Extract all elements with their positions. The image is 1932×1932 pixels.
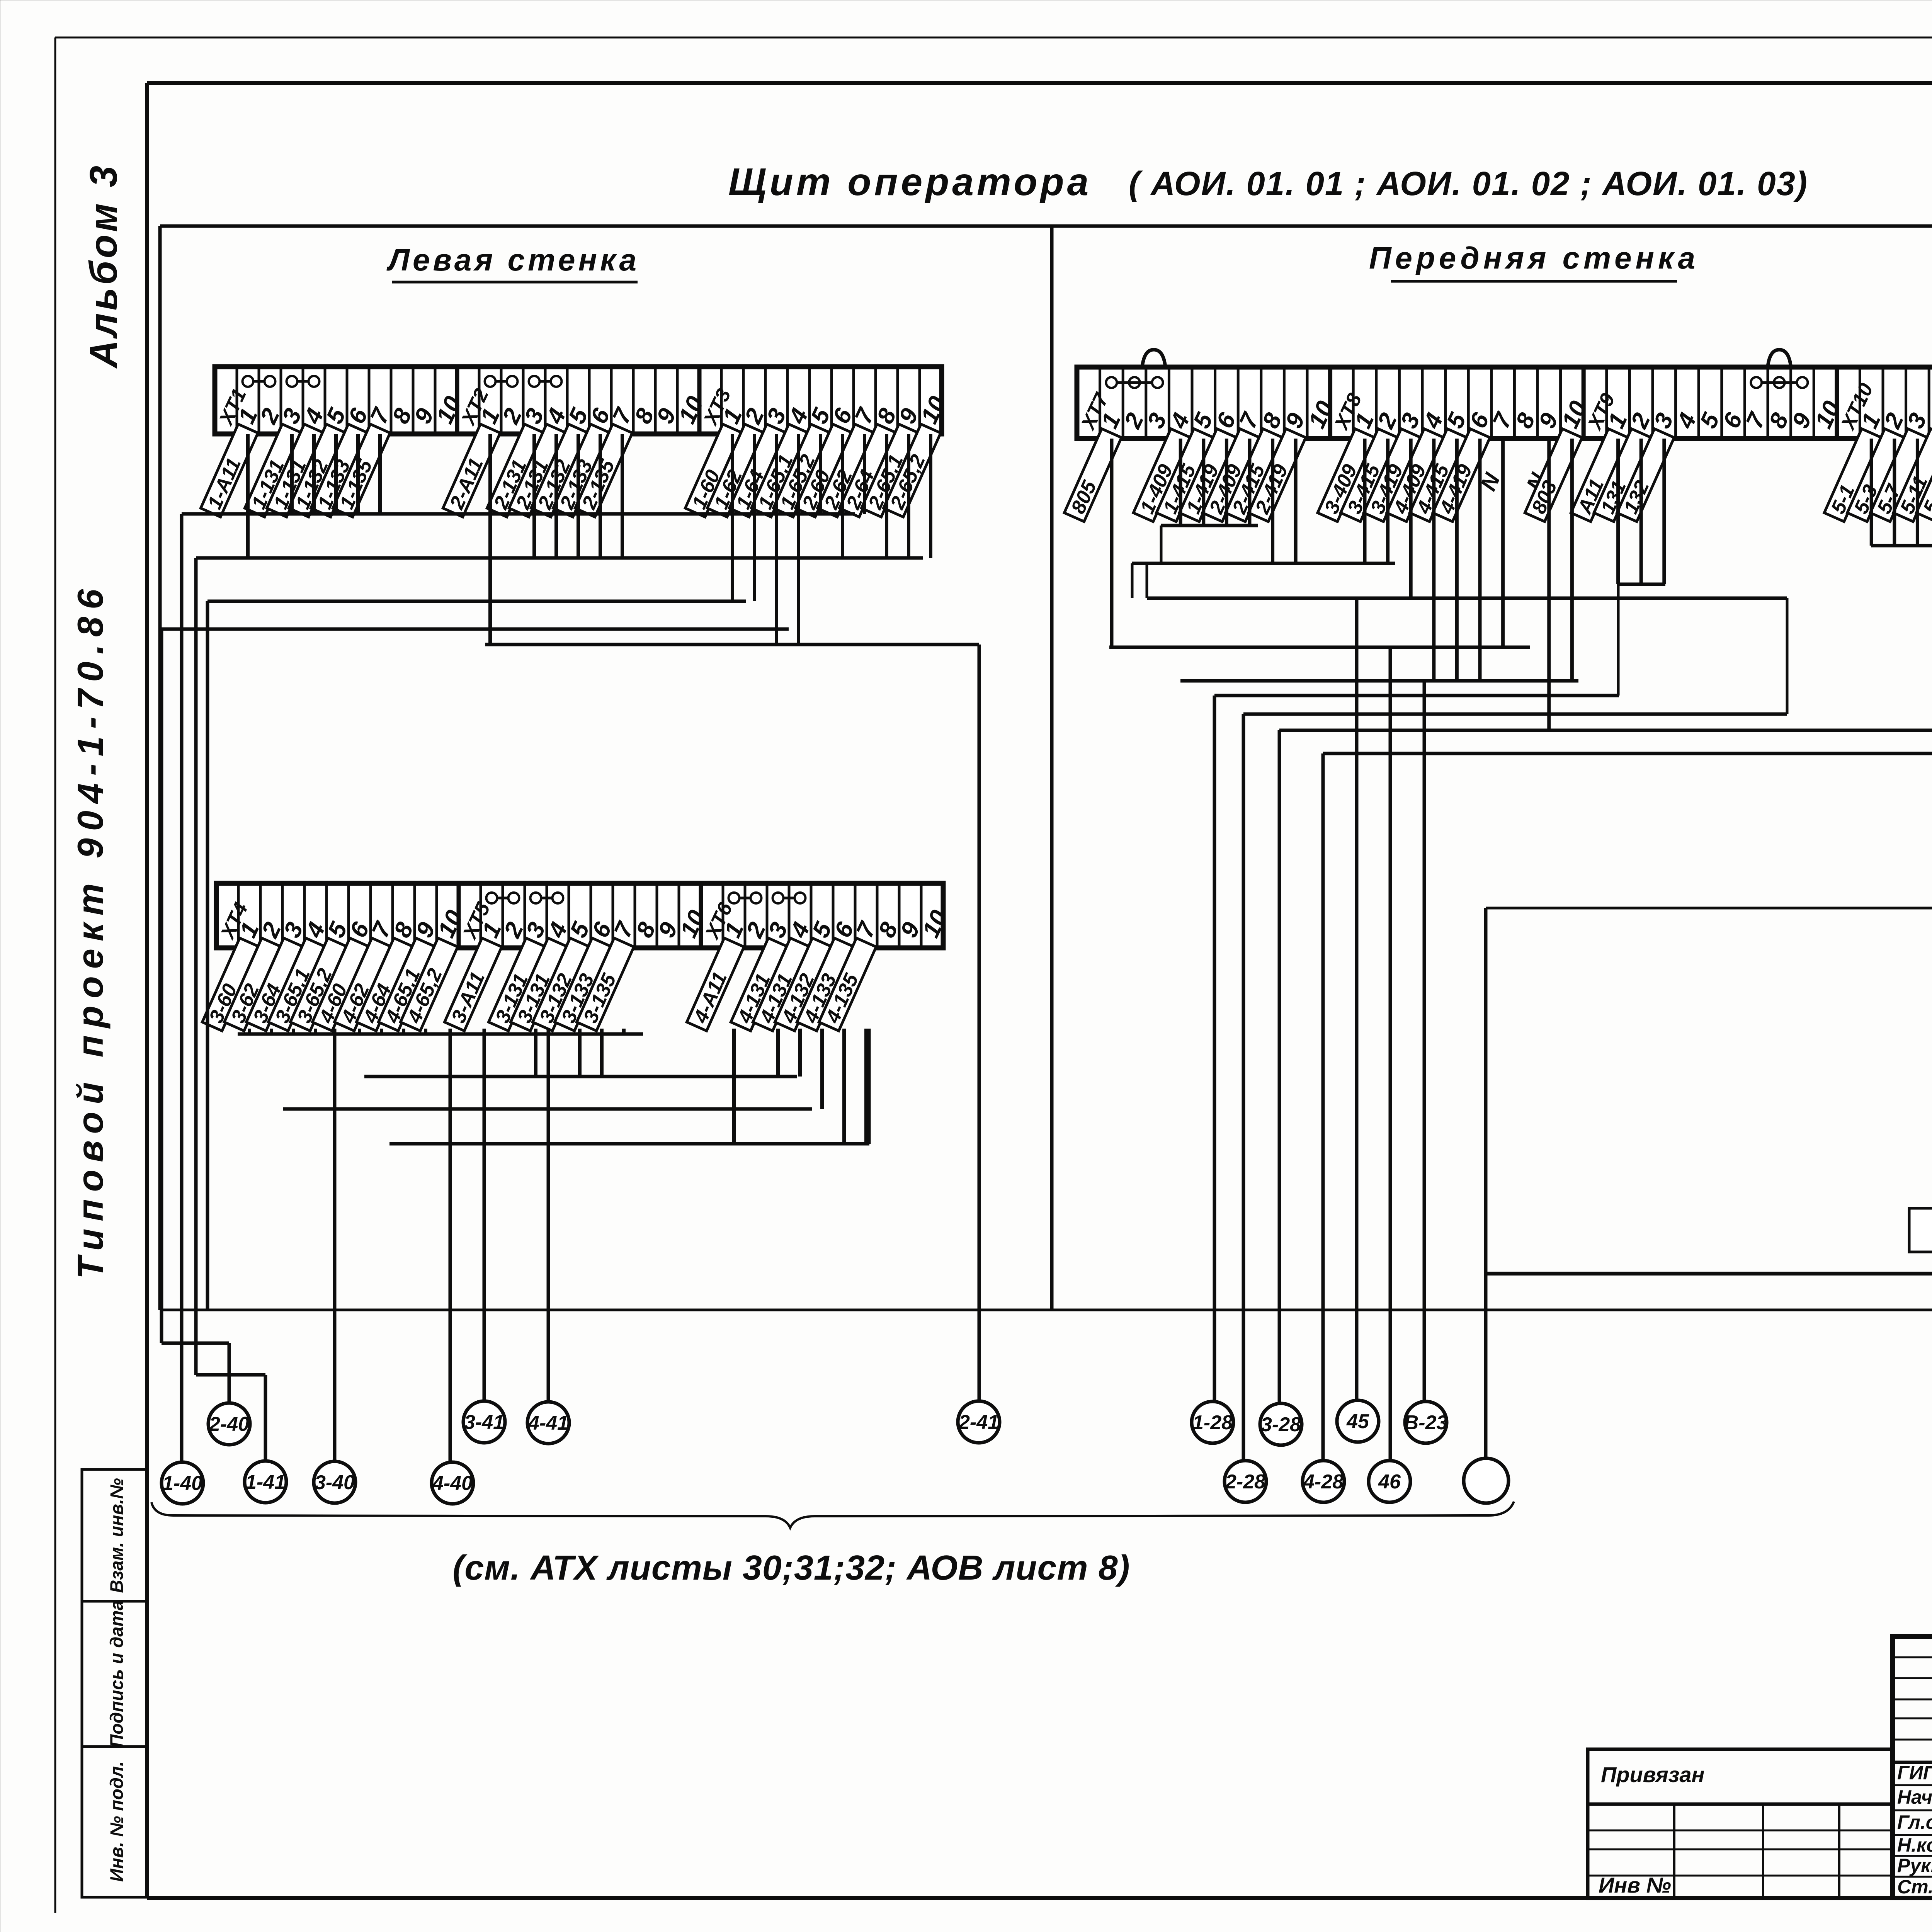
svg-text:Нач.отд.: Нач.отд. xyxy=(1897,1786,1932,1808)
svg-text:4-28: 4-28 xyxy=(1303,1471,1344,1493)
wire trunk to 45 xyxy=(1355,598,1359,1401)
jumper link xyxy=(287,376,320,387)
wire label 1-415 xyxy=(1156,429,1215,522)
svg-text:1-28: 1-28 xyxy=(1192,1412,1233,1434)
wire label 3-60 xyxy=(202,938,260,1031)
wire label 5-13 xyxy=(1917,429,1932,522)
wire label 1-131 xyxy=(245,424,303,517)
cable circle 2-41 xyxy=(958,1401,1000,1443)
svg-text:Инв. № подл.: Инв. № подл. xyxy=(106,1761,127,1882)
cable circle unlabeled xyxy=(1464,1458,1509,1503)
content box top xyxy=(160,224,1932,228)
wire bus M6 xyxy=(1214,694,1619,697)
paper left edge xyxy=(54,37,56,1913)
wire label N xyxy=(1522,469,1551,495)
wire label 1-64 xyxy=(729,424,787,517)
wire label 1-62 xyxy=(707,424,765,517)
divider left/front xyxy=(1050,226,1054,1310)
wire label 2-62 xyxy=(817,424,876,517)
wire label 5-3 xyxy=(1847,429,1906,522)
wire label 2-419 xyxy=(1248,429,1307,522)
wire link M3-M7 xyxy=(1786,598,1789,714)
wire label 2-132 xyxy=(531,424,589,517)
wire trunk to 3-40 xyxy=(333,1029,337,1462)
wire label 1-132 xyxy=(289,424,347,517)
wire trunk to 3-28 xyxy=(1278,730,1281,1404)
svg-text:2-41: 2-41 xyxy=(958,1411,999,1434)
svg-text:ГИП: ГИП xyxy=(1897,1762,1932,1784)
wire label 1-133 xyxy=(311,424,369,517)
wire label N xyxy=(1476,469,1505,495)
wire bus M3 xyxy=(1147,597,1787,600)
ground bar box xyxy=(1909,1208,1932,1252)
wire link A11-M6 xyxy=(1617,584,1620,696)
wire label А11 xyxy=(1571,429,1629,522)
wire label 132 xyxy=(1617,429,1675,522)
wire label 3-415 xyxy=(1341,429,1399,522)
content box bottom xyxy=(160,1309,1932,1311)
loop above XT7 xyxy=(1142,350,1165,367)
svg-text:Подпись и дата: Подпись и дата xyxy=(106,1600,127,1748)
wire ground bus thick xyxy=(1486,1272,1932,1276)
wire trunk 537 xyxy=(206,601,209,1310)
wire bus M4 xyxy=(1109,646,1530,649)
wire label 1-А11 xyxy=(201,424,259,517)
wire bus M1 xyxy=(1161,524,1258,527)
wire label 2-65,2 xyxy=(883,424,942,517)
wire label 3-409 xyxy=(1318,429,1376,522)
wire label 3-132 xyxy=(532,938,591,1031)
wire label 2-131 xyxy=(487,424,545,517)
wire label 3-65,1 xyxy=(268,938,327,1031)
cable circle 2-28 xyxy=(1225,1461,1266,1502)
jumper link xyxy=(729,893,762,903)
wire link M3 left xyxy=(1146,563,1148,598)
wire trunk to 3-41 xyxy=(483,1029,486,1402)
wire label 2-64 xyxy=(839,424,898,517)
wire trunk to B-23 xyxy=(1423,681,1426,1402)
jumper link xyxy=(773,893,806,903)
svg-text:В-23: В-23 xyxy=(1404,1412,1448,1434)
svg-text:1-40: 1-40 xyxy=(162,1472,202,1495)
terminal strip XT4-XT6 xyxy=(216,883,953,948)
wire bus b2 xyxy=(196,556,923,560)
wire label 4-62 xyxy=(334,938,393,1031)
wire label 1-65,2 xyxy=(773,424,832,517)
wire trunk to 4-28 xyxy=(1321,753,1325,1461)
terminal strip XT7-XT10 xyxy=(1077,367,1932,439)
wire label 4-65,1 xyxy=(378,938,437,1031)
svg-text:Ст.инж: Ст.инж xyxy=(1897,1876,1932,1898)
wire bus N link xyxy=(1486,907,1932,910)
wire bus m4 xyxy=(389,1142,869,1146)
cable circle 3-41 xyxy=(463,1401,505,1443)
wire bus 5L11 xyxy=(1871,544,1932,548)
wire label 1-60 xyxy=(685,424,743,517)
svg-text:Гл.спец.: Гл.спец. xyxy=(1897,1811,1932,1833)
cable circle 4-28 xyxy=(1303,1461,1344,1502)
svg-text:45: 45 xyxy=(1346,1410,1369,1433)
wire label 4-409 xyxy=(1387,429,1445,522)
wire label 131 xyxy=(1594,429,1652,522)
wire label 4-65,2 xyxy=(400,938,459,1031)
paper top edge xyxy=(55,37,1932,39)
brace under circles xyxy=(151,1502,1514,1528)
wire label 2-415 xyxy=(1226,429,1284,522)
svg-text:4-40: 4-40 xyxy=(432,1472,473,1495)
terminal strip XT1-XT3 xyxy=(214,367,951,434)
wire trunk to 1-40 xyxy=(180,514,184,1463)
wire stubs below strip XT1-XT3 xyxy=(248,434,931,645)
wire label 3-133 xyxy=(554,938,613,1031)
wire bus M7 xyxy=(1243,713,1787,716)
wire label 4-64 xyxy=(356,938,415,1031)
wire label 2-65,1 xyxy=(861,424,920,517)
svg-text:Рук.гр.: Рук.гр. xyxy=(1897,1855,1932,1876)
wire label 4-131 xyxy=(753,938,811,1031)
jumper link xyxy=(529,376,562,387)
cable circle 4-41 xyxy=(527,1402,569,1444)
svg-text:4-41: 4-41 xyxy=(528,1412,568,1434)
wire bus b1 xyxy=(182,512,855,516)
wire label 5-1 xyxy=(1824,429,1883,522)
sheet frame bottom xyxy=(147,1896,1932,1900)
wire label 4-131 xyxy=(731,938,789,1031)
wire label 4-133 xyxy=(797,938,855,1031)
wire trunk to 2-40 xyxy=(162,629,229,1404)
wire label 3-65,2 xyxy=(290,938,349,1031)
wire link M2-M3 xyxy=(1131,563,1134,598)
svg-text:Привязан: Привязан xyxy=(1601,1762,1704,1787)
wire stub m4 right xyxy=(868,1029,871,1144)
svg-text:Взам. инв.№: Взам. инв.№ xyxy=(106,1478,127,1593)
wire bus m2 xyxy=(364,1075,797,1078)
wire label 4-А11 xyxy=(687,938,745,1031)
wire label 1-409 xyxy=(1133,429,1192,522)
content box left xyxy=(158,226,162,1310)
wire label 3-62 xyxy=(224,938,282,1031)
wire label 3-А11 xyxy=(444,938,503,1031)
wire label 3-135 xyxy=(577,938,635,1031)
svg-text:2-28: 2-28 xyxy=(1225,1471,1265,1493)
wire label 5-11 xyxy=(1893,429,1932,522)
cable circle 1-40 xyxy=(162,1462,203,1504)
cable circle 46 xyxy=(1369,1461,1410,1502)
wire bus b5 xyxy=(485,643,979,646)
wire label 2-А11 xyxy=(443,424,501,517)
wire label 4-135 xyxy=(819,938,877,1031)
cable circle 1-28 xyxy=(1192,1401,1233,1443)
cable circle В-23 xyxy=(1404,1401,1448,1443)
svg-text:Н.контр.: Н.контр. xyxy=(1897,1834,1932,1856)
wire bus M8 xyxy=(1279,729,1932,732)
jumper link xyxy=(1751,377,1808,388)
svg-text:Типовой проект 904-1-70.86: Типовой проект 904-1-70.86 xyxy=(70,582,111,1279)
svg-text:3-40: 3-40 xyxy=(315,1471,355,1494)
svg-text:Альбом 3: Альбом 3 xyxy=(82,163,125,369)
svg-text:Щит оператора: Щит оператора xyxy=(728,160,1092,204)
cable circle 1-41 xyxy=(245,1461,286,1503)
wire trunk to 4-41 xyxy=(547,1029,550,1403)
title block stamp xyxy=(1893,1636,1932,1898)
svg-text:46: 46 xyxy=(1378,1471,1401,1493)
wire label 1-65,1 xyxy=(751,424,810,517)
svg-text:Левая стенка: Левая стенка xyxy=(386,243,639,277)
wire bus M5 xyxy=(1180,679,1578,683)
sheet frame top xyxy=(147,81,1932,85)
svg-text:3-41: 3-41 xyxy=(464,1411,504,1434)
wire label 3-419 xyxy=(1364,429,1422,522)
wire label 3-64 xyxy=(246,938,304,1031)
svg-text:Инв №: Инв № xyxy=(1599,1873,1671,1897)
jumper link xyxy=(485,376,518,387)
loop above XT9 xyxy=(1768,350,1791,367)
wire label 1-131 xyxy=(267,424,325,517)
svg-text:(см. АТХ листы 30;31;32; АО: (см. АТХ листы 30;31;32; АОВ лист 8) xyxy=(452,1549,1130,1587)
svg-text:( АОИ. 01. 01 ; АОИ. 01. 02 ;: ( АОИ. 01. 01 ; АОИ. 01. 02 ; АОИ. 01. 0… xyxy=(1129,165,1808,202)
wire label 5-7 xyxy=(1870,429,1929,522)
cable circle 3-40 xyxy=(314,1461,355,1503)
wire label 4-60 xyxy=(312,938,371,1031)
cable circle 3-28 xyxy=(1260,1403,1302,1445)
left stamp boxes xyxy=(82,1469,147,1897)
wire label 4-419 xyxy=(1433,429,1491,522)
wire trunk 805 xyxy=(1110,439,1114,647)
header levaya stenka xyxy=(386,243,639,282)
privyazan table xyxy=(1588,1749,1892,1898)
wire label 3-131 xyxy=(510,938,569,1031)
wire bus M2 xyxy=(1132,562,1395,565)
wire trunk to 46 xyxy=(1389,647,1392,1461)
cable circle 2-40 xyxy=(208,1403,250,1445)
svg-text:Передняя стенка: Передняя стенка xyxy=(1369,241,1699,275)
wire label 2-135 xyxy=(575,424,633,517)
jumper link xyxy=(1106,377,1163,388)
wire label 2-131 xyxy=(509,424,567,517)
wire label 2-409 xyxy=(1202,429,1261,522)
sheet frame left xyxy=(145,83,149,1898)
wire label 803 xyxy=(1525,429,1583,522)
wire bus M9 to L1 xyxy=(1323,752,1932,755)
svg-text:2-40: 2-40 xyxy=(209,1413,249,1435)
wire bus m3 xyxy=(283,1107,812,1111)
wire bus m1 xyxy=(238,1032,643,1036)
svg-text:1-41: 1-41 xyxy=(245,1471,286,1493)
wire trunk to 4-40 xyxy=(449,1029,452,1463)
wire trunk to 1-28 xyxy=(1213,696,1216,1402)
wire label 1-419 xyxy=(1179,429,1238,522)
wire label 2-133 xyxy=(553,424,611,517)
wire label 4-132 xyxy=(775,938,833,1031)
wire trunk to ground circle xyxy=(1484,908,1488,1460)
wire label 1-135 xyxy=(333,424,391,517)
cable circle 45 xyxy=(1337,1400,1379,1442)
wire trunk to 1-41 xyxy=(196,558,265,1462)
wire link M1-M2 xyxy=(1160,526,1163,563)
jumper link xyxy=(243,376,276,387)
header perednyaya stenka xyxy=(1369,241,1699,281)
wire bus b4 xyxy=(162,628,789,631)
jumper link xyxy=(531,893,563,903)
wire label 3-131 xyxy=(488,938,547,1031)
jumper link xyxy=(486,893,519,903)
wire bus M-A11 xyxy=(1617,583,1665,586)
wire label 4-415 xyxy=(1410,429,1468,522)
wire label 805 xyxy=(1064,429,1122,522)
wire trunk to 2-41 xyxy=(978,645,981,1402)
wire bus b3 xyxy=(207,600,746,603)
wire stubs below strip XT4-XT6 xyxy=(250,1029,866,1144)
cable circle 4-40 xyxy=(432,1462,473,1504)
wire stubs below strip XT7-XT10 xyxy=(1180,439,1932,730)
wire label 2-60 xyxy=(795,424,854,517)
wire trunk to 2-28 xyxy=(1242,714,1245,1461)
svg-text:3-28: 3-28 xyxy=(1261,1413,1301,1436)
